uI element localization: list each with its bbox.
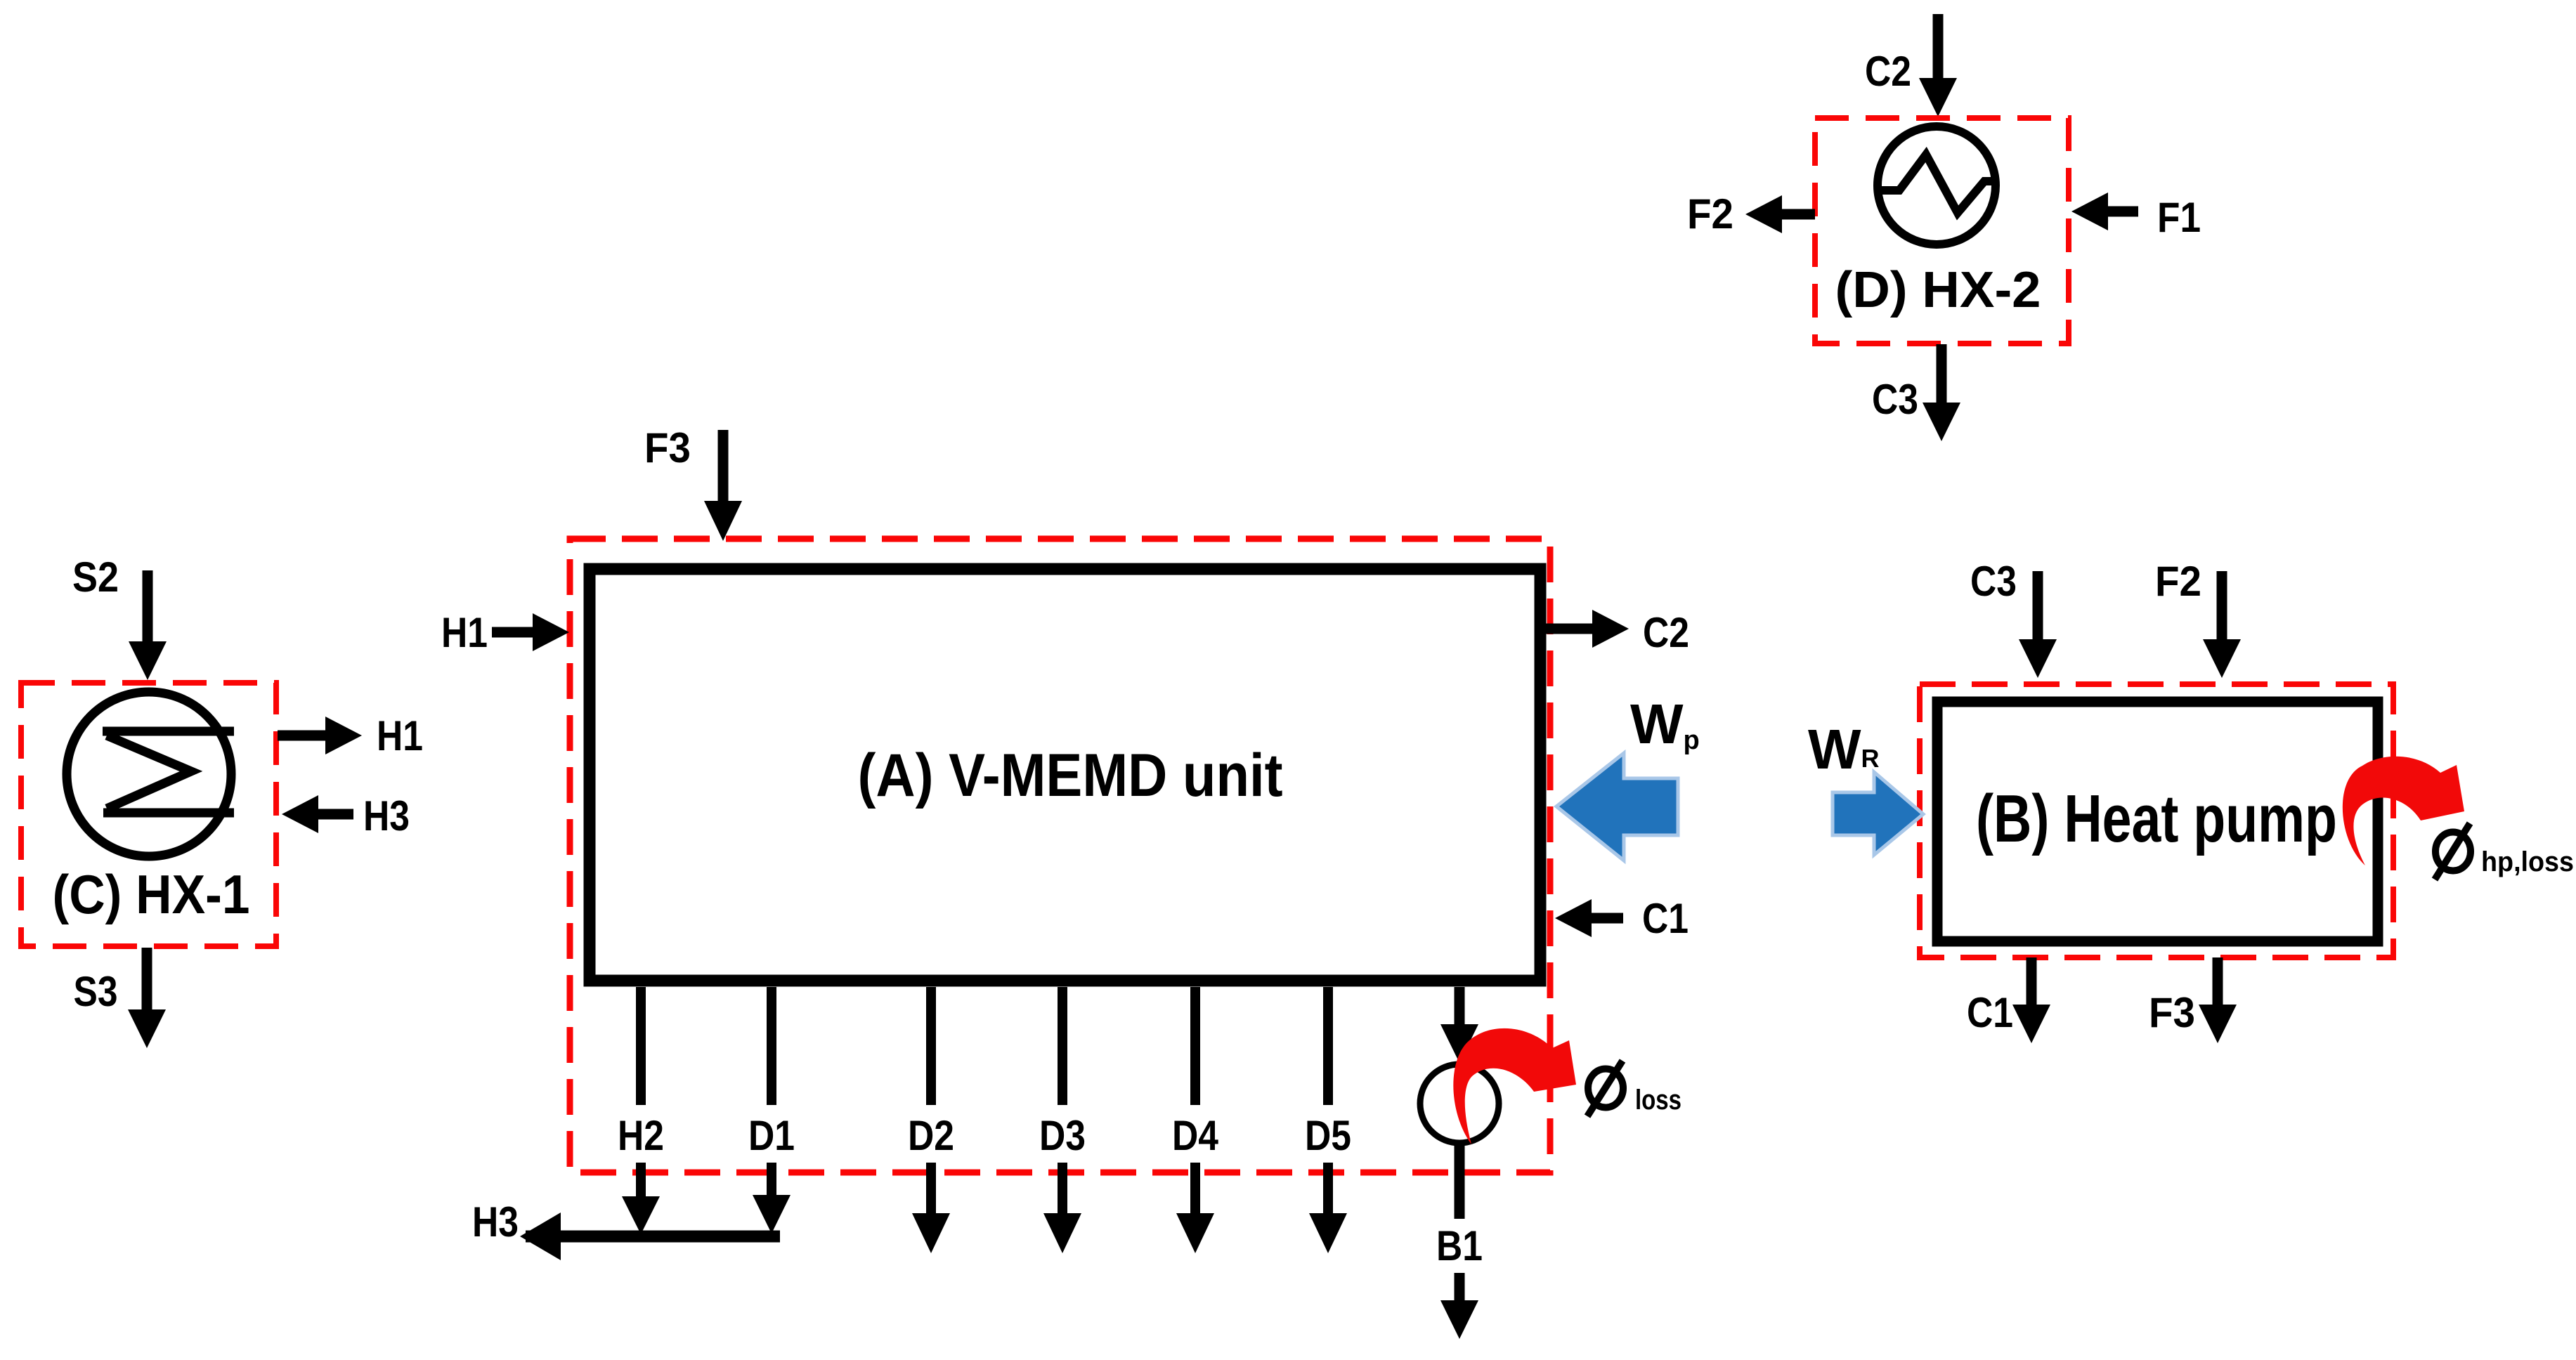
stream arrow C2 out of V-MEMD — [1546, 610, 1629, 648]
svg-text:D1: D1 — [748, 1112, 795, 1159]
stream arrow H2 lower segment — [622, 1163, 660, 1234]
stream D2 upper segment — [926, 987, 936, 1105]
stream arrow F1 into HX-2 — [2071, 192, 2138, 230]
svg-text:F1: F1 — [2157, 194, 2201, 241]
svg-text:H1: H1 — [441, 609, 488, 656]
stream arrowhead H3 out — [520, 1212, 561, 1260]
label phi hp,loss — [2435, 823, 2471, 880]
svg-text:F3: F3 — [2149, 989, 2195, 1036]
svg-text:(C) HX-1: (C) HX-1 — [53, 863, 250, 925]
stream arrow H1 out of HX-1 — [278, 717, 362, 754]
stream arrow D3 lower segment — [1043, 1163, 1081, 1253]
work input arrow WR (blue block arrow) — [1833, 772, 1923, 855]
stream arrow H1 into V-MEMD — [492, 613, 569, 651]
stream arrow B1 into pump — [1440, 987, 1478, 1063]
stream H2 upper segment — [636, 987, 646, 1105]
work input arrow Wp (blue block arrow) — [1556, 753, 1678, 861]
svg-text:H1: H1 — [377, 712, 423, 759]
dashed boundary box A — [570, 539, 1550, 1172]
pump circle — [1420, 1064, 1499, 1143]
svg-text:H3: H3 — [363, 792, 410, 839]
label phi loss — [1587, 1061, 1623, 1116]
collector wire to H3 — [526, 1231, 780, 1243]
stream arrow F2 out of HX-2 — [1745, 195, 1815, 233]
stream arrow C3 out of HX-2 — [1923, 344, 1960, 441]
svg-text:(D) HX-2: (D) HX-2 — [1835, 262, 2041, 318]
stream D1 upper segment — [767, 987, 776, 1105]
svg-text:D3: D3 — [1039, 1112, 1086, 1159]
heat exchanger HX-2 circle — [1878, 126, 1996, 244]
svg-text:C2: C2 — [1865, 48, 1911, 95]
svg-text:H3: H3 — [472, 1198, 519, 1245]
stream arrow C1 into V-MEMD — [1555, 899, 1623, 937]
svg-text:(B) Heat pump: (B) Heat pump — [1976, 781, 2337, 856]
svg-text:C1: C1 — [1642, 895, 1689, 942]
stream D3 upper segment — [1058, 987, 1067, 1105]
stream arrow H3 into HX-1 — [282, 795, 353, 833]
svg-text:F2: F2 — [1687, 190, 1733, 237]
heat exchanger HX-1 sigma coil — [103, 731, 234, 813]
stream arrow D4 lower segment — [1176, 1163, 1214, 1253]
stream D4 upper segment — [1190, 987, 1200, 1105]
stream arrow D2 lower segment — [912, 1163, 950, 1253]
stream arrow F3 into V-MEMD — [704, 430, 742, 541]
heat exchanger HX-2 wave — [1879, 155, 1996, 213]
svg-text:S2: S2 — [72, 554, 119, 601]
svg-text:hp,loss: hp,loss — [2481, 846, 2574, 877]
stream arrow S3 out of HX-1 — [128, 948, 166, 1048]
svg-text:(A) V-MEMD unit: (A) V-MEMD unit — [858, 742, 1283, 809]
V-MEMD unit body rectangle — [590, 569, 1540, 981]
stream arrow S2 into HX-1 — [129, 570, 167, 680]
svg-text:C1: C1 — [1967, 989, 2013, 1036]
heat exchanger HX-1 circle — [67, 692, 231, 856]
dashed boundary box C — [21, 683, 276, 946]
svg-text:S3: S3 — [74, 968, 118, 1015]
stream arrow F2 into heat pump — [2203, 571, 2241, 678]
heat pump body rectangle — [1937, 702, 2378, 941]
svg-text:D5: D5 — [1305, 1112, 1351, 1159]
svg-text:H2: H2 — [618, 1112, 664, 1159]
stream arrow F3 out of heat pump — [2199, 957, 2237, 1043]
svg-text:D2: D2 — [908, 1112, 954, 1159]
heat loss curved arrow (pump) — [1453, 1028, 1576, 1144]
stream arrow C3 into heat pump — [2019, 571, 2057, 678]
svg-text:F2: F2 — [2155, 558, 2201, 605]
stream arrow C2 into HX-2 — [1919, 14, 1957, 117]
svg-text:C2: C2 — [1643, 609, 1689, 656]
svg-text:C3: C3 — [1872, 376, 1918, 423]
stream arrow D1 lower segment — [753, 1163, 791, 1234]
svg-text:F3: F3 — [644, 424, 691, 471]
wire pump to B1 label — [1455, 1144, 1465, 1219]
stream arrow B1 out — [1440, 1273, 1478, 1339]
stream arrow C1 out of heat pump — [2012, 957, 2050, 1043]
heat loss curved arrow (heat pump) — [2343, 757, 2464, 865]
svg-text:C3: C3 — [1970, 558, 2017, 605]
dashed boundary box B — [1920, 684, 2393, 957]
svg-text:loss: loss — [1635, 1085, 1681, 1116]
svg-text:D4: D4 — [1172, 1112, 1219, 1159]
stream D5 upper segment — [1323, 987, 1333, 1105]
dashed boundary box D — [1815, 118, 2069, 344]
svg-text:B1: B1 — [1436, 1222, 1483, 1269]
stream arrow D5 lower segment — [1309, 1163, 1347, 1253]
